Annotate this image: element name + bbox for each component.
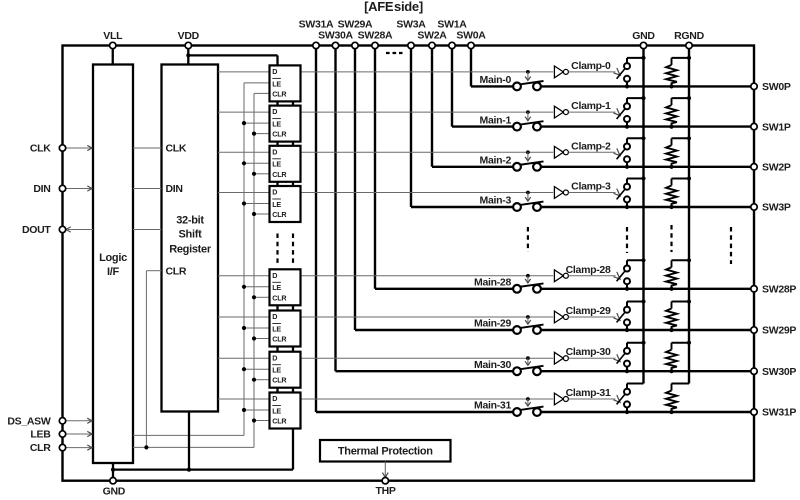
svg-text:CLR: CLR (272, 130, 287, 139)
svg-text:SW30A: SW30A (318, 30, 353, 42)
svg-text:Main-0: Main-0 (480, 74, 512, 86)
svg-text:DOUT: DOUT (22, 224, 51, 236)
svg-text:D: D (272, 271, 277, 280)
svg-text:D: D (272, 147, 277, 156)
svg-text:LE: LE (272, 200, 281, 209)
svg-text:CLR: CLR (272, 89, 287, 98)
svg-text:Logic: Logic (99, 252, 127, 264)
svg-text:D: D (272, 67, 277, 76)
svg-text:LE: LE (272, 283, 281, 292)
svg-text:SW1P: SW1P (762, 121, 791, 133)
svg-text:CLR: CLR (272, 210, 287, 219)
svg-text:Clamp-3: Clamp-3 (571, 181, 611, 193)
svg-text:D: D (272, 188, 277, 197)
svg-text:SW31A: SW31A (299, 18, 334, 30)
svg-text:CLR: CLR (166, 265, 187, 277)
svg-text:CLR: CLR (272, 335, 287, 344)
svg-text:Main-28: Main-28 (474, 277, 511, 289)
svg-text:SW28A: SW28A (358, 30, 393, 42)
svg-text:Thermal Protection: Thermal Protection (338, 446, 433, 458)
svg-text:Register: Register (169, 244, 212, 256)
svg-text:SW2P: SW2P (762, 162, 791, 174)
svg-text:CLK: CLK (166, 143, 187, 155)
svg-text:DIN: DIN (166, 183, 183, 195)
svg-text:CLR: CLR (272, 293, 287, 302)
svg-text:VLL: VLL (103, 30, 123, 42)
svg-text:LE: LE (272, 160, 281, 169)
svg-text:Clamp-31: Clamp-31 (566, 387, 611, 399)
svg-text:SW3P: SW3P (762, 202, 791, 214)
svg-text:LE: LE (272, 366, 281, 375)
svg-text:D: D (272, 312, 277, 321)
svg-text:D: D (272, 353, 277, 362)
svg-text:CLR: CLR (272, 170, 287, 179)
svg-text:LE: LE (272, 324, 281, 333)
svg-text:Clamp-28: Clamp-28 (566, 264, 611, 276)
svg-text:Main-1: Main-1 (480, 114, 512, 126)
svg-text:Shift: Shift (179, 229, 203, 241)
svg-text:[AFE side]: [AFE side] (364, 0, 423, 14)
svg-text:Clamp-29: Clamp-29 (566, 305, 611, 317)
svg-text:Main-30: Main-30 (474, 359, 511, 371)
svg-text:I/F: I/F (107, 266, 120, 278)
svg-text:LE: LE (272, 406, 281, 415)
svg-text:GND: GND (103, 486, 126, 498)
svg-text:D: D (272, 394, 277, 403)
svg-text:SW2A: SW2A (417, 30, 447, 42)
svg-text:SW1A: SW1A (437, 18, 467, 30)
svg-text:SW31P: SW31P (762, 407, 796, 419)
svg-text:LE: LE (272, 79, 281, 88)
svg-text:Clamp-0: Clamp-0 (571, 60, 611, 72)
svg-text:VDD: VDD (178, 30, 200, 42)
svg-text:CLR: CLR (272, 417, 287, 426)
svg-text:D: D (272, 107, 277, 116)
svg-text:GND: GND (632, 30, 655, 42)
svg-text:Clamp-1: Clamp-1 (571, 100, 611, 112)
svg-text:RGND: RGND (674, 30, 704, 42)
svg-text:Clamp-2: Clamp-2 (571, 140, 611, 152)
svg-text:CLK: CLK (30, 143, 51, 155)
svg-text:SW29A: SW29A (338, 18, 373, 30)
svg-text:32-bit: 32-bit (176, 215, 204, 227)
svg-text:LEB: LEB (30, 429, 51, 441)
svg-text:Clamp-30: Clamp-30 (566, 346, 611, 358)
svg-text:SW3A: SW3A (396, 18, 426, 30)
svg-text:DIN: DIN (33, 183, 50, 195)
svg-text:SW0P: SW0P (762, 81, 791, 93)
svg-text:Main-31: Main-31 (474, 400, 511, 412)
svg-text:THP: THP (376, 485, 396, 497)
svg-text:CLR: CLR (30, 442, 51, 454)
svg-text:LE: LE (272, 120, 281, 129)
svg-text:Main-3: Main-3 (480, 195, 512, 207)
svg-text:SW29P: SW29P (762, 325, 796, 337)
svg-text:SW30P: SW30P (762, 366, 796, 378)
svg-text:Main-29: Main-29 (474, 318, 511, 330)
svg-text:DS_ASW: DS_ASW (7, 415, 51, 427)
svg-text:CLR: CLR (272, 376, 287, 385)
svg-text:SW0A: SW0A (456, 30, 486, 42)
svg-text:SW28P: SW28P (762, 284, 796, 296)
svg-text:Main-2: Main-2 (480, 155, 512, 167)
